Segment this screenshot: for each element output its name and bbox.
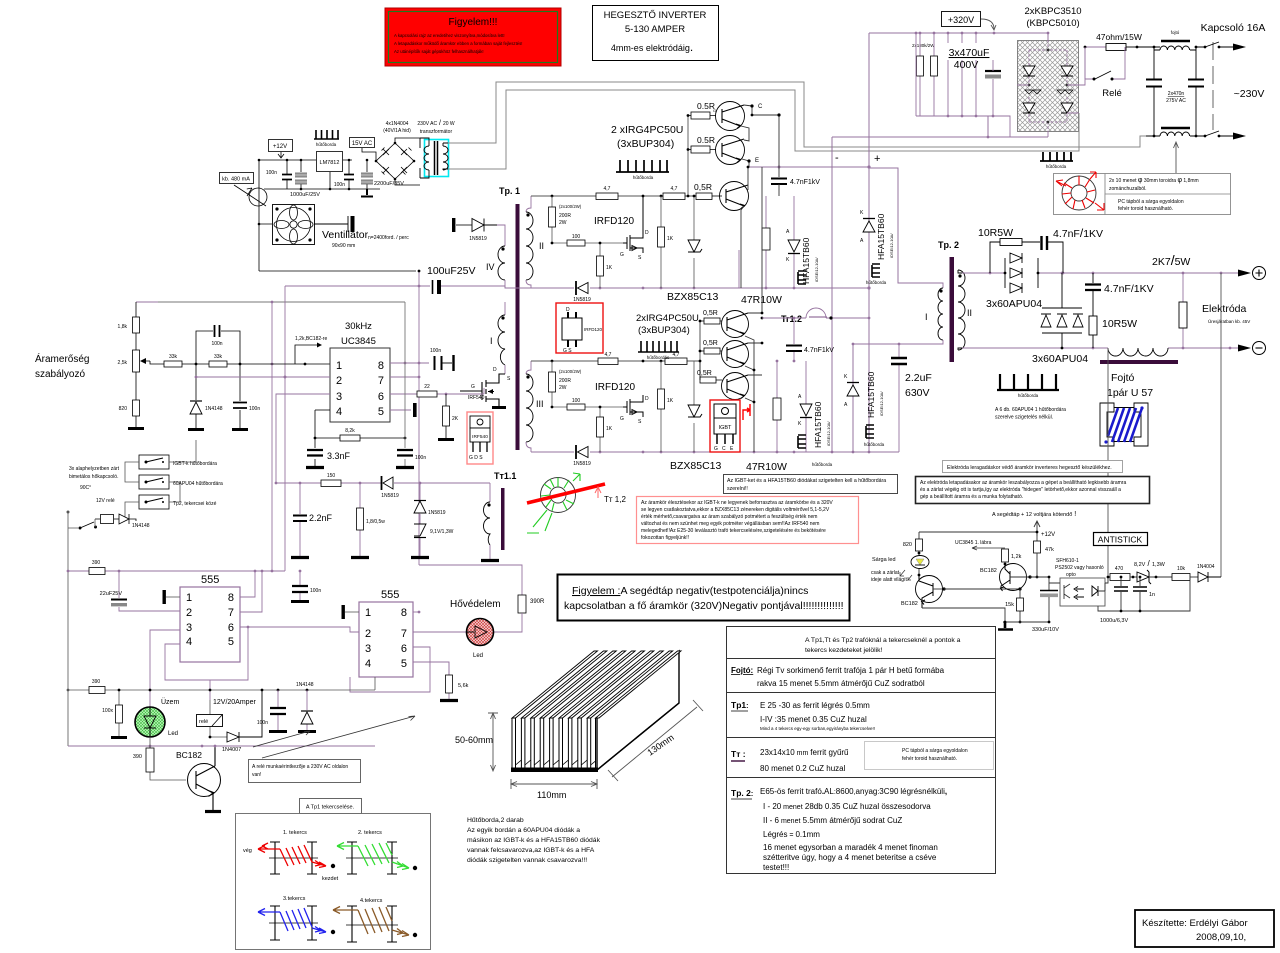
svg-text:+12V: +12V [1041, 532, 1055, 538]
svg-text:gép a beállított áramra és a m: gép a beállított áramra és a munka folyt… [920, 494, 1023, 500]
credits box [1135, 910, 1274, 947]
svg-text:470: 470 [1115, 566, 1124, 572]
svg-text:opto: opto [1066, 572, 1076, 578]
svg-text:1N4007: 1N4007 [222, 747, 241, 753]
package box IGBT [710, 400, 740, 452]
svg-text:G D S: G D S [469, 455, 483, 461]
resistor 200R 2W lower [549, 361, 582, 407]
svg-text:230V AC / 20 W: 230V AC / 20 W [417, 120, 455, 127]
diode HFA15TB60 lower a [798, 361, 833, 467]
resistor 10R5W mid [1089, 316, 1137, 348]
svg-text:4,7: 4,7 [673, 352, 680, 358]
svg-text:2.2uF: 2.2uF [905, 372, 932, 384]
resistor 33k b [209, 354, 227, 367]
resistor 47R10W upper [762, 196, 770, 289]
svg-text:IRFD120: IRFD120 [595, 382, 635, 393]
resistor 1K lower gate [597, 406, 613, 452]
diode 1N4148 relay [119, 514, 150, 529]
svg-text:7: 7 [228, 607, 234, 619]
heatsink symbol top igbt [616, 160, 669, 180]
capacitor bank 3x470uF 400V [915, 32, 1010, 137]
ic UC3845 [330, 348, 390, 422]
capacitor 100n output [334, 175, 354, 189]
svg-text:fokozottan figyeljünk!!: fokozottan figyeljünk!! [641, 535, 689, 541]
svg-text:hűtőborda: hűtőborda [866, 280, 887, 285]
winding I [490, 302, 505, 374]
svg-text:100n: 100n [257, 720, 268, 726]
wire plus bus [868, 33, 870, 452]
capacitor + diode 1N5819 aux [452, 218, 497, 242]
note box Elektroda leragadaskor [943, 461, 1123, 473]
svg-text:4x1N4004: 4x1N4004 [386, 121, 409, 127]
svg-text:10R5W: 10R5W [978, 227, 1013, 239]
wire pin8 vref [390, 362, 429, 364]
svg-text:II: II [967, 308, 972, 318]
svg-text:3x60APU04: 3x60APU04 [986, 298, 1042, 310]
svg-text:6: 6 [378, 391, 384, 403]
winding Tp.2 secondary II [958, 270, 972, 350]
svg-text:33k: 33k [169, 354, 178, 360]
wire 555b pin5 [413, 662, 449, 675]
zener BZX85C13 lower [688, 361, 702, 452]
igbt Q6 [697, 361, 749, 400]
regulator LM7812 [317, 152, 343, 172]
svg-text:2.2nF: 2.2nF [309, 513, 333, 523]
capacitor 100uF25V plates [432, 280, 434, 294]
svg-text:16 menet egysorban a maradék 4: 16 menet egysorban a maradék 4 menet fin… [763, 843, 938, 852]
wire PSU bottom return [259, 270, 416, 272]
wire 555a pin3 [150, 630, 180, 707]
svg-text:6: 6 [401, 643, 407, 655]
svg-text:390: 390 [133, 754, 142, 760]
svg-text:1: 1 [336, 360, 342, 372]
svg-text:100: 100 [572, 398, 581, 404]
resistor 10k [1172, 566, 1190, 581]
svg-text:Elektróda leragadáskor védő ár: Elektróda leragadáskor védő áramkör inve… [947, 465, 1112, 471]
capacitor 100n sense [232, 364, 260, 430]
svg-text:1N5819: 1N5819 [573, 461, 591, 467]
wire antistick bottom rail [1098, 581, 1190, 611]
svg-text:1N5819: 1N5819 [469, 236, 487, 242]
svg-text:A relé munkaérintkezője a 230V: A relé munkaérintkezője a 230V AC oldalo… [252, 764, 348, 770]
svg-text:7: 7 [401, 628, 407, 640]
svg-text:1K: 1K [606, 265, 613, 271]
svg-text:Hővédelem: Hővédelem [450, 599, 501, 610]
resistor 390R [494, 595, 545, 632]
svg-text:390: 390 [92, 560, 101, 566]
svg-text:G: G [620, 416, 624, 422]
svg-text:1N4004: 1N4004 [1197, 564, 1215, 570]
warning box Figyelem [385, 8, 561, 66]
wire emitter node mid [745, 336, 754, 452]
wire rail 690 [68, 677, 375, 690]
wire 12V rail [259, 159, 352, 161]
svg-text:Üzem: Üzem [161, 698, 179, 706]
winding diagram 4 brown [333, 906, 417, 942]
svg-text:22: 22 [424, 384, 430, 390]
node 15V AC box [350, 138, 375, 148]
svg-text:0,5R: 0,5R [694, 182, 712, 192]
svg-text:(KBPC5010): (KBPC5010) [1026, 18, 1079, 29]
svg-text:2W: 2W [559, 220, 567, 226]
svg-text:4: 4 [365, 658, 371, 670]
svg-text:4mm-es elektródáig.: 4mm-es elektródáig. [611, 40, 693, 54]
relay coil 12V [95, 515, 119, 524]
driver upper top wire [531, 195, 696, 197]
resistor 1,8k [118, 302, 140, 350]
svg-text:90C°: 90C° [80, 485, 91, 491]
svg-text:8: 8 [378, 360, 384, 372]
wire emitter node E [741, 126, 749, 288]
svg-text:~230V: ~230V [1234, 88, 1265, 100]
svg-text:3: 3 [186, 622, 192, 634]
wire emitter rail [749, 166, 869, 168]
svg-text:/DSEI12-10A/: /DSEI12-10A/ [826, 421, 831, 446]
svg-text:2x470n: 2x470n [1168, 91, 1185, 97]
svg-text:1000u/6,3V: 1000u/6,3V [1100, 618, 1128, 624]
svg-text:1N4148: 1N4148 [205, 406, 223, 412]
node +12V box [269, 140, 293, 159]
svg-text:IRF540: IRF540 [472, 434, 488, 440]
resistor 150 [321, 473, 341, 487]
wire fan left [259, 160, 272, 271]
svg-text:G: G [620, 252, 624, 258]
svg-text:Tp1:: Tp1: [731, 700, 748, 710]
svg-text:hűtőborda: hűtőborda [633, 175, 654, 180]
svg-text:HFA15TB60: HFA15TB60 [813, 401, 823, 448]
svg-text:100n: 100n [211, 341, 222, 347]
svg-text:4,7: 4,7 [671, 186, 678, 192]
resistor 2K [438, 394, 459, 440]
resistor 8,2k [314, 410, 407, 441]
svg-text:Mind a 4 tekercs egy-egy sorba: Mind a 4 tekercs egy-egy sorban,egyirány… [760, 726, 875, 731]
wire output plus rail [962, 272, 1238, 274]
wire collector node mid [748, 167, 762, 375]
capacitor 4.7nF top [1042, 236, 1064, 273]
svg-text:10R5W: 10R5W [1102, 318, 1137, 330]
dimension 130mm [608, 700, 703, 781]
svg-text:IGBT: IGBT [719, 425, 732, 431]
wire to Tp2 winding I bottom [853, 344, 938, 452]
resistor 2K7/5W [1152, 252, 1190, 348]
resistor 22 [417, 384, 437, 397]
capacitor 3.3nF [306, 438, 351, 468]
svg-text:2 xIRG4PC50U: 2 xIRG4PC50U [611, 124, 683, 136]
bridge rectifier 4x1N4004 [362, 138, 420, 185]
winding Tt1.1 [484, 483, 491, 560]
svg-text:400V: 400V [954, 59, 979, 71]
svg-text:és a zárlat végéig ott is tart: és a zárlat végéig ott is tartja,így az … [920, 487, 1121, 493]
heatsink symbol bridge [1040, 152, 1073, 169]
heatsink symbol output diodes [995, 374, 1066, 421]
capacitor 4.7nF1kV upper [771, 179, 820, 197]
svg-text:Fojtó: Fojtó [1111, 372, 1135, 384]
resistor 820 antistick [903, 539, 923, 555]
capacitor 100n vref [430, 348, 454, 371]
terminal minus electrode [1238, 342, 1266, 355]
svg-text:C: C [758, 104, 763, 110]
svg-text:8,2k: 8,2k [345, 428, 355, 434]
ground antistick [998, 622, 1013, 630]
svg-text:(2x100/2W): (2x100/2W) [559, 204, 582, 209]
ic 555 first [180, 574, 240, 662]
svg-text:(40V/1A hid): (40V/1A hid) [383, 128, 411, 134]
diode HFA15TB60 upper a [786, 196, 819, 289]
svg-text:-: - [835, 152, 839, 164]
resistor 1,8/0,5w [351, 483, 385, 558]
svg-text:2W: 2W [559, 385, 567, 391]
led Uzem green [135, 707, 178, 737]
wire hovedelem top [419, 565, 522, 595]
svg-text:fojtó: fojtó [1171, 30, 1180, 35]
svg-text:C: C [722, 446, 726, 452]
svg-text:Tт :: Tт : [731, 749, 746, 759]
svg-text:1: 1 [186, 592, 192, 604]
fan Ventillator [273, 205, 315, 245]
svg-text:IRFD120: IRFD120 [594, 216, 634, 227]
svg-text:10k: 10k [1177, 566, 1186, 572]
svg-text:UC3845 1. lábra: UC3845 1. lábra [955, 540, 992, 546]
svg-text:D: D [645, 396, 649, 402]
resistor 1K upper right [658, 196, 674, 288]
svg-text:4,7: 4,7 [604, 186, 611, 192]
table spec box [727, 627, 996, 874]
svg-text:2xIRG4PC50U: 2xIRG4PC50U [636, 313, 699, 324]
diode 1N5819 lower block [573, 445, 591, 467]
resistor 1K lower right [658, 361, 674, 452]
wire bridge AC bottom to rail [1048, 113, 1079, 137]
svg-text:50-60mm: 50-60mm [455, 735, 493, 745]
zener BZX85C13 upper [688, 195, 702, 288]
svg-text:3: 3 [336, 391, 342, 403]
resistor 10R5W top [990, 239, 1040, 274]
mosfet IRF540 [460, 367, 511, 408]
wire pin2 [196, 376, 330, 378]
wire 555a pin6 to 555b pin2 [240, 627, 359, 632]
svg-text:30kHz: 30kHz [345, 321, 372, 332]
svg-text:I: I [925, 312, 928, 322]
wire aux vertical x285 [284, 286, 286, 571]
svg-text:SFH610-1: SFH610-1 [1056, 558, 1079, 564]
svg-text:4.7nF/1KV: 4.7nF/1KV [1104, 283, 1154, 295]
svg-text:2x180k/2W: 2x180k/2W [912, 43, 935, 48]
svg-text:1,2k,BC182-re: 1,2k,BC182-re [295, 336, 327, 342]
capacitor 470n b [1188, 46, 1204, 138]
transistor BC182 driver [980, 564, 1032, 592]
svg-text:IRFD120: IRFD120 [584, 327, 603, 332]
igbt Q4 [700, 310, 749, 338]
svg-text:fehér toroid használható.: fehér toroid használható. [902, 756, 957, 762]
svg-text:1pár U 57: 1pár U 57 [1107, 387, 1153, 399]
svg-text:III: III [536, 399, 544, 409]
note hutoborda 2 darab [467, 817, 601, 864]
driver lower top wire [531, 320, 700, 361]
svg-text:Led: Led [473, 653, 483, 659]
svg-text:1N4148: 1N4148 [296, 682, 314, 688]
svg-text:I: I [490, 336, 493, 346]
capacitor 555b pin1 term [345, 611, 359, 613]
arrow fojto to toroid note [1174, 142, 1179, 173]
svg-text:3.3nF: 3.3nF [327, 451, 351, 461]
svg-text:Figyelem!!!: Figyelem!!! [449, 17, 498, 28]
svg-text:2K: 2K [452, 416, 459, 422]
resistor 33k a [164, 354, 182, 367]
svg-text:HFA15TB60: HFA15TB60 [866, 371, 876, 418]
wire PSU ground rail [264, 160, 380, 189]
resistor 1K upper gate [597, 242, 613, 288]
svg-text:100n: 100n [266, 170, 277, 176]
transistor BC182 sense [901, 575, 946, 608]
resistor 15k [1005, 589, 1023, 623]
svg-text:rakva 15 menet 5.5mm átmérő: rakva 15 menet 5.5mm átmérőjű CuZ sodrat… [757, 679, 925, 688]
svg-text:100n: 100n [415, 455, 426, 461]
svg-text:diódák szigetelten vannak csav: diódák szigetelten vannak csavarozva!!! [467, 857, 587, 864]
resistor 47R10W lower [773, 360, 781, 452]
transformer 230V/15V with cyan highlight [420, 138, 449, 178]
resistor 100 lower [551, 398, 623, 410]
svg-text:G: G [713, 108, 716, 113]
svg-text:Tr1.2: Tr1.2 [781, 314, 802, 324]
svg-text:4.7nF1kV: 4.7nF1kV [790, 179, 820, 186]
potentiometer 2,5k [118, 350, 150, 372]
wire pin3 sense [276, 394, 330, 483]
svg-text:100uF25V: 100uF25V [427, 265, 475, 277]
svg-text:vég: vég [243, 848, 252, 854]
svg-text:hűtőborda: hűtőborda [316, 142, 337, 147]
mosfet IRFD120 lower [620, 395, 649, 425]
note box tuning pink [637, 497, 859, 544]
svg-text:100n: 100n [334, 182, 345, 188]
svg-text:Tp. 1: Tp. 1 [499, 186, 520, 196]
transformer Tr1.2 sense [762, 308, 869, 324]
svg-text:Az elektróda letapadásakor az: Az elektróda letapadásakor az áramkör le… [920, 480, 1126, 486]
svg-text:szerelve szigetelés nélkül.: szerelve szigetelés nélkül. [995, 415, 1053, 421]
svg-text:Az áramkör élesztésekor az IGB: Az áramkör élesztésekor az IGBT-k ne leg… [641, 500, 833, 506]
wire mains outer gray [448, 82, 1146, 147]
winding II [526, 196, 544, 288]
svg-text:275V AC: 275V AC [1166, 98, 1186, 104]
svg-text:3x alaphelyzetben zárt: 3x alaphelyzetben zárt [69, 466, 120, 472]
wire wiper to 33k [150, 361, 330, 364]
wire mains inner gray [448, 90, 1079, 169]
svg-text:60APU04 hűtőbordára: 60APU04 hűtőbordára [173, 481, 223, 487]
svg-text:BZX85C13: BZX85C13 [667, 291, 719, 303]
svg-text:2,5k: 2,5k [118, 360, 128, 366]
ammeter pointer [234, 185, 267, 206]
capacitor 2.2uF 630V [891, 344, 932, 452]
svg-text:zománchuzalból.: zománchuzalból. [1109, 186, 1147, 192]
wire thermal chain [125, 440, 196, 521]
svg-text:PC tápból a sárga egyoldalon: PC tápból a sárga egyoldalon [1118, 199, 1184, 205]
capacitor fan [314, 216, 348, 232]
capacitor 100n input [266, 170, 292, 180]
wire mains top rail [1137, 46, 1160, 48]
svg-text:3: 3 [365, 643, 371, 655]
diode 1N4004 [1190, 564, 1221, 582]
svg-text:UC3845: UC3845 [341, 336, 376, 347]
svg-text:Sárga led: Sárga led [872, 557, 896, 563]
svg-text:47k: 47k [1045, 547, 1054, 553]
svg-text:15V AC: 15V AC [352, 141, 373, 147]
wire to Tp2 winding I top [869, 168, 938, 283]
svg-text:1: 1 [365, 607, 371, 619]
igbt Q1 [688, 101, 745, 131]
heatsink symbol hutoborda (7812) [314, 130, 339, 147]
svg-text:A segédtáp + 12 voltjára köten: A segédtáp + 12 voltjára kötendő ! [992, 511, 1076, 518]
title box HEGESZTO INVERTER [593, 6, 719, 61]
wire sense row [276, 482, 490, 484]
svg-text:100n: 100n [310, 588, 321, 594]
svg-text:Tт1.1: Tт1.1 [494, 471, 516, 481]
ic 555 second [359, 589, 413, 677]
svg-text:100n: 100n [249, 406, 260, 412]
diode 1N5819 sense [381, 476, 399, 499]
capacitor 100n feedback [196, 325, 240, 364]
svg-text:4.7nF/1KV: 4.7nF/1KV [1053, 226, 1103, 240]
svg-text:1,8/0,5w: 1,8/0,5w [366, 519, 385, 525]
svg-text:Led: Led [168, 731, 178, 737]
wire pin6 gate drive [390, 388, 484, 394]
led sarga yellow [900, 556, 929, 581]
svg-text:2: 2 [365, 628, 371, 640]
svg-text:1N5819: 1N5819 [428, 510, 446, 516]
thermal switch 1 [139, 455, 217, 469]
svg-text:Áramerőség: Áramerőség [35, 352, 89, 365]
svg-text:IRF540: IRF540 [468, 395, 485, 401]
svg-text:0,5R: 0,5R [703, 340, 718, 347]
svg-text:II - 6 menet 5.5mm átmér: II - 6 menet 5.5mm átmérőjű sodrat CuZ [763, 816, 902, 825]
wire bridge AC left [1017, 84, 1029, 86]
capacitor 2200uF/35V [361, 173, 404, 187]
svg-text:Figyelem :A segédtáp negativ(t: Figyelem :A segédtáp negativ(testpotenci… [572, 585, 808, 597]
wire 555a pin7 [240, 571, 262, 612]
wire antistick top rail [919, 532, 1037, 541]
resistor 1,2k [1002, 549, 1022, 565]
svg-text:100x: 100x [102, 708, 113, 714]
arrow rele note b [253, 731, 310, 747]
capacitor 100n mid555 [291, 571, 321, 602]
svg-text:van!: van! [252, 772, 261, 778]
wire output minus rail [962, 347, 1238, 349]
svg-text:1K: 1K [667, 236, 674, 242]
wire antistick emitter rail [1003, 577, 1049, 622]
wire 555b pin6 [350, 647, 430, 692]
relay contact Rele [1085, 47, 1125, 99]
resistor 180k b [931, 32, 938, 116]
svg-text:testet!!!: testet!!! [763, 863, 789, 872]
svg-text:1N5819: 1N5819 [573, 297, 591, 303]
wire electrode sense minus [1107, 348, 1109, 578]
svg-text:Fojtó:: Fojtó: [731, 666, 753, 675]
package box IRFD120 [556, 303, 603, 354]
svg-text:4: 4 [186, 636, 192, 648]
wire +320V rail [869, 33, 1048, 40]
capacitor 330uF/10V [1032, 584, 1064, 633]
svg-text:Az IGBT-ket és a HFA15TB60 dió: Az IGBT-ket és a HFA15TB60 diódákat szig… [727, 478, 886, 484]
ground Tt1.1 winding [481, 559, 499, 562]
svg-text:HFA15TB60: HFA15TB60 [801, 237, 811, 284]
svg-text:(2x100/2W): (2x100/2W) [559, 369, 582, 374]
svg-text:szerelni!!: szerelni!! [727, 486, 748, 492]
switch Kapcsolo [1204, 42, 1246, 140]
svg-text:változhat és nem szünhet meg e: változhat és nem szünhet meg egyik potmé… [641, 521, 819, 527]
svg-text:1K: 1K [606, 426, 613, 432]
svg-text:1N4148: 1N4148 [132, 523, 150, 529]
svg-text:bimetálos hőkapcsoló.: bimetálos hőkapcsoló. [69, 474, 118, 480]
capacitor pin1 term [166, 596, 180, 598]
wire 555a pin4 [165, 627, 248, 700]
svg-text:HEGESZTŐ INVERTER: HEGESZTŐ INVERTER [604, 10, 707, 21]
